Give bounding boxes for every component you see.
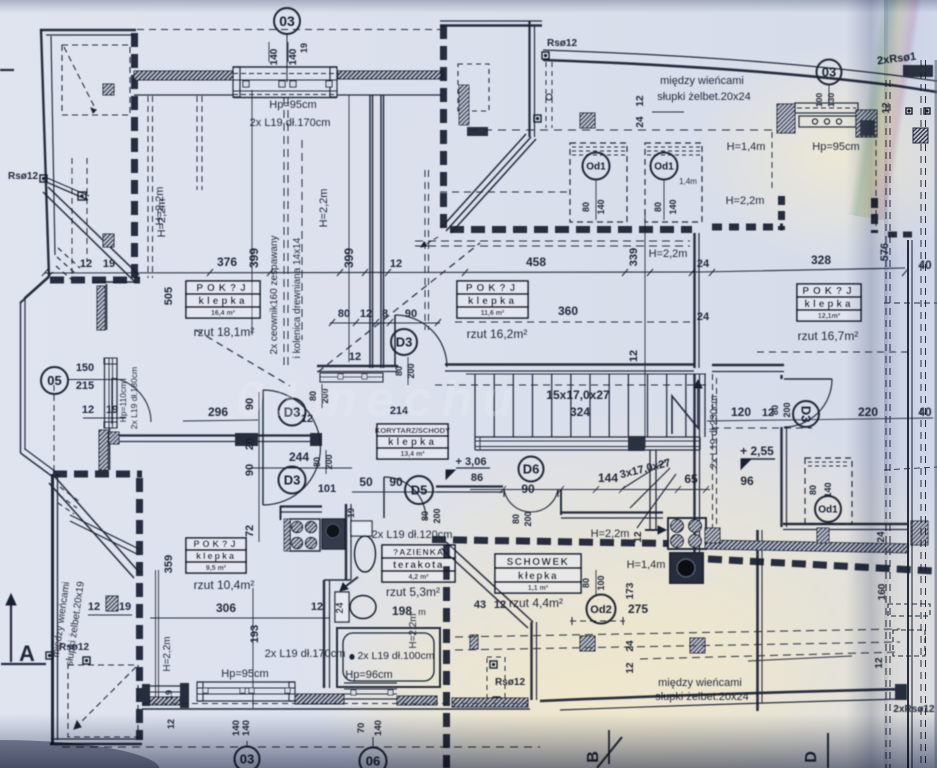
svg-text:słupki żelbet.20x24: słupki żelbet.20x24 bbox=[655, 691, 749, 703]
bathtub inner bbox=[343, 633, 434, 681]
corridor top wall bbox=[106, 434, 322, 436]
wreath hatch bottom c bbox=[452, 698, 528, 707]
window pair thin lines bbox=[155, 570, 157, 700]
chimney dark box bbox=[670, 553, 703, 583]
svg-text:120: 120 bbox=[731, 405, 751, 419]
bay dim line bbox=[83, 417, 126, 419]
bottom shadow bbox=[0, 714, 937, 768]
dashed proj vertical right room bbox=[771, 132, 773, 192]
hatch strip left of stove bbox=[284, 519, 290, 551]
room table POKOJ 12,1 klepka bbox=[797, 284, 861, 297]
svg-text:324: 324 bbox=[570, 405, 590, 419]
svg-text:24: 24 bbox=[625, 640, 636, 652]
terrace dashed stack rect bbox=[458, 64, 489, 111]
svg-text:H=2,2m: H=2,2m bbox=[591, 528, 630, 540]
wreath hatch bottom a bbox=[295, 694, 344, 704]
svg-text:458: 458 bbox=[526, 255, 546, 269]
door D5 swing arc bbox=[384, 477, 426, 519]
thin line bottom right bbox=[748, 656, 852, 661]
hatched piers bottom middle bbox=[580, 636, 595, 651]
svg-text:19: 19 bbox=[346, 508, 356, 518]
svg-text:rzut 5,3m²: rzut 5,3m² bbox=[386, 585, 440, 599]
svg-text:12,1m²: 12,1m² bbox=[818, 313, 841, 320]
bottom window 03 frame bbox=[197, 681, 295, 683]
svg-text:H=2,2m: H=2,2m bbox=[318, 189, 330, 228]
left wall below bay bbox=[51, 474, 54, 745]
svg-text:D3: D3 bbox=[396, 335, 413, 350]
sheet2 dashed axis lines bbox=[885, 80, 887, 768]
hatched pier right wall a bbox=[705, 528, 720, 543]
dashed stud pair below window left bbox=[147, 96, 149, 278]
svg-text:80: 80 bbox=[511, 514, 521, 524]
wreath hatch band left segment bbox=[134, 71, 233, 80]
ridge dashed pair bbox=[283, 97, 285, 365]
terrace right wall bottom bbox=[756, 530, 759, 711]
corridor double door semicircle bbox=[262, 390, 264, 505]
sheet2 window symbols bbox=[888, 604, 930, 616]
anchor tie diagonal bbox=[44, 181, 88, 200]
svg-text:12: 12 bbox=[628, 350, 640, 362]
terrace hatch strip bbox=[459, 85, 469, 125]
sink dark block bbox=[322, 519, 345, 549]
svg-text:80: 80 bbox=[338, 308, 350, 320]
bay dashed diagonal with arrow bbox=[64, 47, 96, 110]
kitchen niche wall right bbox=[345, 504, 347, 580]
axis circle D3 corridor lower bbox=[279, 467, 306, 494]
bay corner diagonal upper bbox=[20, 277, 49, 303]
anchor on tie bbox=[78, 192, 86, 200]
bottom sill line bbox=[142, 708, 530, 710]
dashed eave line top bbox=[137, 29, 440, 31]
svg-text:80: 80 bbox=[770, 405, 780, 415]
knee wall heavy dashed vertical left bbox=[131, 33, 138, 282]
heavy dashed knee wall horizontal bottom bbox=[432, 540, 668, 544]
dashed proj horizontal right room bbox=[757, 351, 908, 353]
svg-text:90: 90 bbox=[405, 308, 417, 320]
svg-text:Od2: Od2 bbox=[590, 604, 611, 616]
svg-text:12: 12 bbox=[360, 308, 372, 320]
axis circle Od1 second bbox=[651, 153, 678, 180]
anchor Rs12 top-left bbox=[40, 175, 47, 182]
dashed valley diagonal lower-left bbox=[196, 330, 290, 386]
corridor table KORYTARZ bbox=[377, 424, 448, 436]
dashed valley diagonal to corner bbox=[318, 243, 480, 372]
door D5 leaf bbox=[383, 477, 385, 518]
hatched pier right wall b bbox=[817, 528, 829, 543]
window top-right hatch left bbox=[777, 104, 795, 133]
right edge line bbox=[935, 60, 937, 768]
terrace top wall bbox=[440, 20, 542, 22]
wardrobe Od1 third dashed bbox=[805, 458, 852, 524]
svg-text:12: 12 bbox=[80, 258, 92, 270]
heavy dashed knee wall horizontal centre bbox=[450, 226, 692, 233]
chain horizontal corridor 244 bbox=[250, 467, 352, 469]
svg-text:193: 193 bbox=[249, 625, 261, 643]
corridor bottom wall left bbox=[280, 505, 322, 507]
dashed proj verticals near corner bbox=[424, 170, 426, 330]
ground outline end blocks bbox=[895, 684, 907, 700]
toilet lower tank bbox=[335, 592, 349, 622]
room 16,7 left wall lower bbox=[780, 427, 782, 527]
svg-text:słupki żelbet.20x24: słupki żelbet.20x24 bbox=[657, 91, 751, 103]
svg-text:12: 12 bbox=[82, 404, 94, 416]
room table POKOJ 16,4 klepka bbox=[186, 281, 260, 294]
room table POKOJ 9,5 klepka bbox=[186, 538, 246, 550]
bottom-left outer wall bbox=[50, 743, 142, 746]
svg-text:klepka: klepka bbox=[196, 551, 236, 561]
winder treads bbox=[622, 461, 666, 489]
svg-text:140: 140 bbox=[269, 48, 280, 65]
svg-text:11,6 m²: 11,6 m² bbox=[481, 310, 505, 317]
wreath hatch bottom b bbox=[397, 696, 437, 705]
window top-right frame bbox=[795, 103, 858, 113]
dashed line through stairs bbox=[435, 384, 710, 386]
svg-text:306: 306 bbox=[216, 601, 236, 615]
svg-text:klepka: klepka bbox=[388, 437, 437, 448]
svg-text:A: A bbox=[19, 641, 35, 666]
anchor Rs12 left lower bbox=[46, 652, 53, 659]
hatched pier in bay bbox=[103, 84, 114, 95]
svg-text:12: 12 bbox=[390, 258, 402, 270]
ground outline thick bottom right bbox=[540, 689, 905, 701]
svg-text:173: 173 bbox=[625, 582, 636, 599]
double door D6 arcs bbox=[504, 489, 531, 512]
svg-text:12: 12 bbox=[494, 599, 506, 611]
leader line from circle 03 bbox=[286, 34, 288, 82]
svg-text:H=1,4m: H=1,4m bbox=[627, 559, 666, 571]
svg-text:Rsø12: Rsø12 bbox=[59, 642, 89, 653]
knee wall heavy dashed horizontal left bbox=[50, 277, 140, 284]
window bay upper hatch bbox=[97, 286, 105, 330]
svg-text:200: 200 bbox=[324, 454, 334, 469]
svg-text:H=2,2m: H=2,2m bbox=[156, 199, 168, 238]
bottom window left small bbox=[142, 684, 150, 706]
svg-text:2x L19 dł.100cm: 2x L19 dł.100cm bbox=[357, 650, 434, 662]
svg-text:328: 328 bbox=[811, 253, 831, 267]
right bottom wall band bbox=[783, 523, 908, 525]
heavy dashed horizontal on fold bbox=[888, 232, 916, 238]
dashed box around anchor bbox=[487, 657, 505, 705]
svg-text:80: 80 bbox=[808, 485, 818, 495]
chain horizontal corridor 50 90 bbox=[352, 491, 446, 493]
bathtub outer bbox=[337, 628, 440, 687]
svg-text:296: 296 bbox=[208, 405, 228, 419]
svg-text:130: 130 bbox=[826, 93, 836, 107]
toilet upper bowl bbox=[355, 536, 376, 572]
top-left bay outer wall top bbox=[40, 29, 136, 32]
sheet2 tick lines bbox=[884, 302, 937, 304]
bath left wall lower bbox=[323, 580, 325, 688]
svg-text:H=2,2m: H=2,2m bbox=[408, 613, 419, 648]
bathtub drain bbox=[349, 654, 354, 659]
room 16,2 bottom wall left part bbox=[445, 363, 694, 366]
svg-text:rzut 18,1m²: rzut 18,1m² bbox=[194, 325, 255, 339]
roof hip triple diagonal centre bbox=[446, 137, 531, 231]
anchor square lower bbox=[534, 115, 541, 122]
svg-text:65: 65 bbox=[684, 472, 698, 486]
svg-text:50: 50 bbox=[359, 475, 373, 489]
inner wall face line below band bbox=[134, 94, 233, 96]
svg-text:POK?J: POK?J bbox=[193, 539, 238, 549]
rainbow scan artifact bbox=[848, 0, 928, 221]
chain horizontal bottom 306 bbox=[150, 617, 330, 619]
svg-text:Od1: Od1 bbox=[818, 505, 838, 516]
svg-text:między wieńcami: między wieńcami bbox=[660, 75, 744, 87]
window bay hatch band bbox=[99, 430, 108, 470]
hatched pier bay bbox=[109, 432, 119, 444]
understair wall left corner bbox=[436, 485, 503, 487]
svg-text:43: 43 bbox=[474, 599, 486, 611]
svg-text:376: 376 bbox=[217, 255, 237, 269]
short dashed roof guides bbox=[58, 248, 80, 268]
svg-text:200: 200 bbox=[432, 508, 442, 523]
svg-text:Rsø12: Rsø12 bbox=[8, 171, 38, 182]
svg-text:86: 86 bbox=[471, 472, 483, 484]
svg-text:101: 101 bbox=[318, 483, 336, 495]
second sheet base bbox=[884, 0, 937, 768]
dashed diagonal arrow bottom-left bbox=[77, 667, 136, 726]
axis circle Od1 first bbox=[583, 153, 610, 180]
svg-text:4,2 m²: 4,2 m² bbox=[408, 574, 429, 581]
toilet lower bowl bbox=[350, 596, 376, 619]
warm scan glow lower centre bbox=[300, 410, 937, 768]
roof hip diagonal lower-left a bbox=[55, 477, 139, 572]
svg-text:80: 80 bbox=[581, 202, 591, 212]
svg-text:100: 100 bbox=[596, 575, 606, 590]
svg-text:05: 05 bbox=[47, 373, 61, 388]
left bay outer vertical bbox=[20, 303, 22, 453]
svg-text:140: 140 bbox=[668, 199, 678, 214]
svg-text:505: 505 bbox=[163, 287, 175, 305]
svg-text:9,5 m²: 9,5 m² bbox=[206, 565, 227, 572]
heavy torn knee wall top-right horizontal bbox=[712, 224, 783, 231]
svg-text:Rsø12: Rsø12 bbox=[495, 677, 525, 688]
vent shaft hatched circles box bbox=[668, 518, 706, 549]
svg-text:90: 90 bbox=[244, 464, 256, 476]
roof slope diagonal top-left bay bbox=[43, 192, 134, 281]
svg-text:2x L19 dł.170cm: 2x L19 dł.170cm bbox=[265, 648, 346, 660]
room 16,7 top-left wall part bbox=[712, 364, 784, 367]
dark wall band top-right fold bbox=[903, 65, 933, 77]
dashed proj horizontals below heavy wall bbox=[415, 240, 690, 242]
svg-text:03: 03 bbox=[279, 13, 295, 29]
dashed stud verticals bay bbox=[71, 158, 73, 278]
section arrow A bbox=[10, 600, 12, 662]
page fold shading bbox=[846, 0, 888, 768]
svg-text:i kolenica drewniana 14x14: i kolenica drewniana 14x14 bbox=[292, 237, 303, 358]
chain horizontal right room dims bbox=[707, 418, 933, 421]
svg-text:m: m bbox=[418, 607, 426, 617]
svg-text:?AZIENKA: ?AZIENKA bbox=[393, 547, 444, 557]
svg-text:13,4 m²: 13,4 m² bbox=[400, 451, 425, 458]
axis circle D5 bbox=[405, 476, 433, 504]
svg-text:275: 275 bbox=[628, 602, 648, 616]
stove with burners bbox=[290, 519, 320, 551]
dashed proj horizontal terrace bbox=[440, 191, 568, 193]
svg-text:360: 360 bbox=[558, 304, 578, 318]
top shadow bbox=[0, 0, 937, 13]
heavy dashed knee wall vertical left lower bbox=[136, 478, 143, 740]
thin vertical chain line x645 bbox=[644, 210, 646, 448]
sheet2 hatch pier bbox=[913, 128, 928, 143]
svg-text:150: 150 bbox=[76, 362, 94, 374]
svg-text:POK?J: POK?J bbox=[196, 283, 249, 294]
svg-text:+ 3,06: + 3,06 bbox=[456, 456, 487, 468]
bottom window 06 frame bbox=[344, 682, 397, 684]
svg-text:H=1,4m: H=1,4m bbox=[727, 141, 766, 153]
axis circle 03 top-right bbox=[817, 60, 842, 85]
svg-text:90: 90 bbox=[521, 482, 535, 496]
door 05 swing arc bbox=[112, 378, 151, 422]
svg-text:Hp=95cm: Hp=95cm bbox=[221, 668, 268, 680]
dashed stud lines below anchor bbox=[545, 62, 547, 128]
landing left wall bbox=[693, 374, 695, 560]
axis circle 03 bottom bbox=[235, 747, 260, 768]
axis circle 05 bbox=[41, 367, 68, 394]
svg-text:terakota: terakota bbox=[393, 560, 444, 571]
heavy dashed knee wall horizontal left lower bbox=[53, 471, 142, 478]
svg-text:12: 12 bbox=[349, 351, 361, 363]
svg-text:140: 140 bbox=[596, 199, 606, 214]
stair flight boundary bbox=[466, 373, 706, 375]
svg-text:80: 80 bbox=[420, 511, 430, 521]
hatched pier top centre bbox=[580, 113, 595, 128]
window-door 05 frame bbox=[104, 358, 106, 428]
sheet2 wall lines bbox=[907, 240, 909, 768]
svg-text:+ 2,55: + 2,55 bbox=[740, 444, 774, 458]
svg-text:Rsø12: Rsø12 bbox=[547, 38, 577, 49]
svg-text:D3: D3 bbox=[798, 406, 813, 423]
schowek right wall bbox=[530, 622, 532, 700]
svg-text:Hp=95cm: Hp=95cm bbox=[269, 99, 316, 111]
heavy torn knee wall right vertical stub bbox=[778, 196, 785, 230]
svg-text:12: 12 bbox=[635, 95, 646, 107]
svg-text:2x L19 dł.230cm: 2x L19 dł.230cm bbox=[709, 395, 720, 468]
stair stringer band bbox=[475, 436, 700, 438]
svg-text:H=2,2m: H=2,2m bbox=[162, 636, 173, 671]
svg-text:między wieńcami: między wieńcami bbox=[658, 677, 742, 689]
svg-text:Od1: Od1 bbox=[654, 162, 674, 173]
svg-text:72: 72 bbox=[244, 525, 256, 537]
axis circle 03 top bbox=[274, 8, 300, 34]
axis circle D6 bbox=[519, 457, 544, 482]
svg-text:215: 215 bbox=[76, 380, 94, 392]
terrace right wall bbox=[528, 21, 530, 137]
dashed proj pair x197 bbox=[196, 96, 198, 190]
svg-text:80: 80 bbox=[312, 457, 322, 467]
window under room 18,1 wall bbox=[320, 373, 383, 382]
svg-text:H=2,2m: H=2,2m bbox=[726, 195, 765, 207]
svg-text:140: 140 bbox=[288, 48, 299, 65]
winder newel lines bbox=[649, 450, 651, 530]
svg-text:rzut 10,4m²: rzut 10,4m² bbox=[194, 578, 255, 592]
axis circle D3 room 18,1 bbox=[391, 329, 417, 355]
axis circle D3 corridor upper bbox=[279, 399, 306, 426]
eave curve thin bbox=[543, 50, 937, 81]
svg-text:19: 19 bbox=[164, 690, 174, 700]
axis circle D3b rotated bbox=[793, 401, 819, 427]
svg-text:359: 359 bbox=[163, 555, 175, 573]
top-left bay outer wall left slanted bbox=[41, 29, 49, 277]
understair wall right of D6 bbox=[560, 489, 562, 515]
main dimension chain line bbox=[45, 268, 905, 273]
svg-text:2x ceownik160 zespawany: 2x ceownik160 zespawany bbox=[269, 236, 280, 355]
section mark B bbox=[608, 730, 610, 764]
roof hip diagonal to schowek bbox=[446, 542, 533, 622]
svg-text:Od1: Od1 bbox=[586, 162, 606, 173]
bottom dashed line bbox=[142, 703, 530, 705]
leader from 05 bbox=[68, 379, 126, 381]
svg-text:SCHOWEK: SCHOWEK bbox=[507, 557, 570, 568]
door D3 room 18,1 swing arc bbox=[395, 315, 447, 367]
arrow to vent bbox=[645, 529, 660, 531]
entry arrow bathroom bbox=[342, 577, 358, 589]
stair dimension line bbox=[470, 489, 710, 491]
hatched pier fold bbox=[911, 521, 928, 545]
corridor top wall dark blocks bbox=[235, 433, 258, 446]
ground outline thin bottom right bbox=[560, 699, 900, 710]
svg-text:D6: D6 bbox=[523, 462, 540, 477]
svg-text:klepka: klepka bbox=[198, 296, 247, 307]
window 03 assembly top bbox=[233, 66, 337, 68]
anchor Rs12 bottom bbox=[490, 661, 497, 668]
dashed proj rows bottom middle bbox=[455, 629, 900, 637]
svg-text:16,4 m²: 16,4 m² bbox=[211, 310, 236, 317]
svg-text:19: 19 bbox=[103, 258, 115, 270]
wall stub bay upper bbox=[92, 281, 137, 283]
room 16,7 left wall upper bbox=[780, 375, 782, 379]
door D3b leaf horizontal bbox=[784, 378, 832, 380]
door D3b swing arc bbox=[784, 379, 832, 427]
dim chain line corridor left bbox=[183, 420, 258, 421]
svg-text:19: 19 bbox=[119, 601, 131, 613]
dashed proj vertical landing bbox=[712, 374, 714, 530]
svg-text:24: 24 bbox=[635, 116, 646, 128]
svg-text:20: 20 bbox=[244, 438, 256, 450]
dashed proj vertical bay bbox=[53, 385, 55, 472]
double wall between rooms 18,1 and 16,2 bbox=[369, 95, 371, 368]
section mark D bbox=[827, 733, 829, 768]
dashed proj rect bottom-left bbox=[68, 665, 138, 737]
chain vertical through 399 first bbox=[251, 90, 253, 335]
heavy dashed knee wall vertical bottom bbox=[443, 545, 450, 768]
axis circle Od1 third bbox=[815, 496, 841, 522]
stringer dark joint bbox=[628, 436, 645, 451]
svg-text:kłepka: kłepka bbox=[518, 571, 558, 582]
svg-text:200: 200 bbox=[523, 511, 533, 526]
stair treads upper flight bbox=[474, 374, 476, 437]
svg-text:15x17,0x27: 15x17,0x27 bbox=[546, 388, 610, 402]
svg-text:rzut 16,2m²: rzut 16,2m² bbox=[467, 327, 528, 341]
roof hip diagonal lower-left b bbox=[70, 515, 139, 549]
dashed axis line bottom bbox=[62, 746, 540, 748]
svg-text:244: 244 bbox=[289, 450, 309, 464]
toilet upper tank bbox=[351, 521, 372, 536]
wardrobe Od1 second dashed bbox=[645, 143, 702, 222]
door D3 room 18,1 leaf bbox=[394, 315, 396, 366]
svg-text:KORYTARZ/SCHODY: KORYTARZ/SCHODY bbox=[375, 426, 450, 435]
svg-text:POK?J: POK?J bbox=[466, 283, 519, 294]
svg-text:Hp=110cm: Hp=110cm bbox=[118, 382, 128, 423]
wardrobe Od1 first dashed bbox=[570, 143, 627, 222]
hatched pier left lower bbox=[106, 596, 118, 611]
terrace dark block bbox=[467, 127, 488, 136]
svg-text:399: 399 bbox=[247, 248, 261, 268]
room table POKOJ 11,6 klepka bbox=[457, 281, 528, 294]
wall tick far left bbox=[0, 69, 14, 71]
wreath hatch band bottom right bbox=[705, 540, 908, 553]
wreath hatch band right segment bbox=[338, 71, 443, 79]
